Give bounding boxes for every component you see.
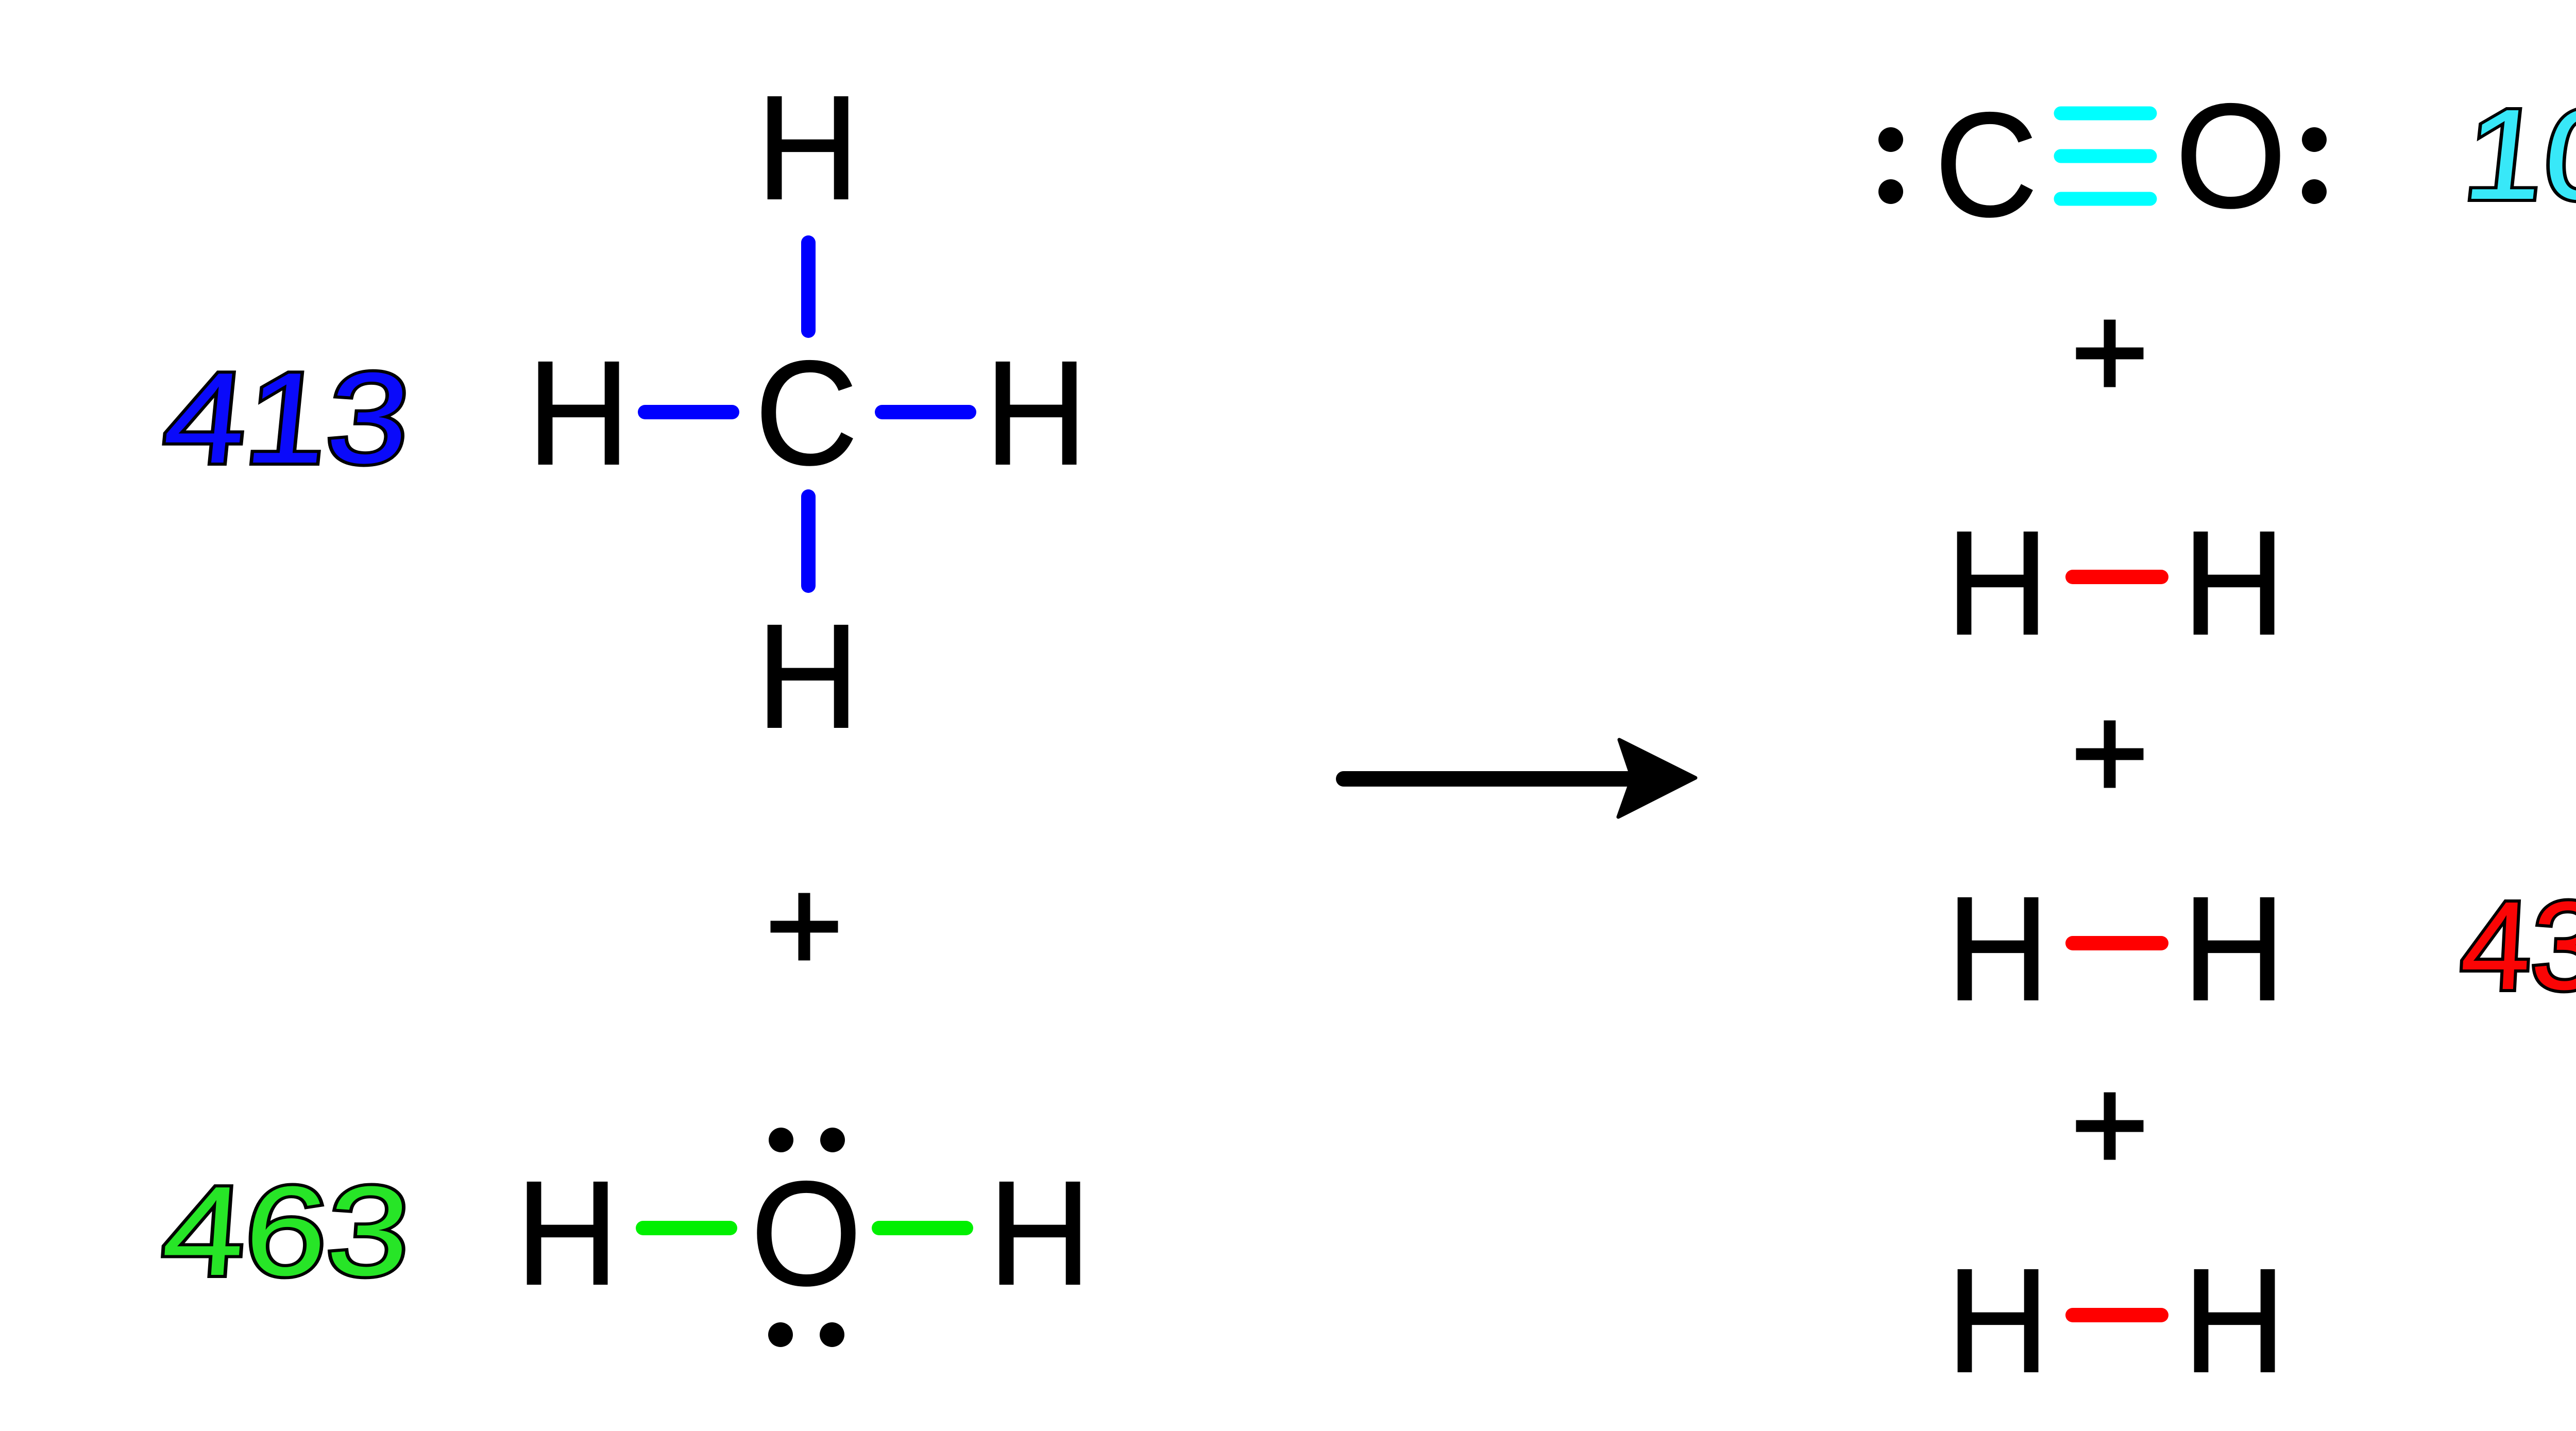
label 463 (O-H bond energy, green) — [158, 1160, 415, 1302]
svg-text:413: 413 — [158, 346, 416, 490]
atom O (water center) — [751, 1150, 862, 1316]
bond H-H #3 (red) — [2073, 1308, 2161, 1322]
svg-text:C: C — [755, 330, 858, 496]
atom H (H2 #3 right) — [2183, 1237, 2286, 1403]
svg-text:H: H — [2182, 865, 2285, 1031]
plus sign (left, between CH4 and H2O) — [771, 893, 838, 961]
atom H (methane left) — [527, 330, 630, 496]
atom H (water left) — [516, 1150, 619, 1316]
label 436 (H-H bond energy, red) — [2458, 875, 2576, 1016]
plus sign (right column, first) — [2076, 320, 2144, 387]
bond H-H #1 (red) — [2073, 570, 2161, 584]
svg-text:H: H — [1946, 1237, 2049, 1403]
svg-text:H: H — [988, 1150, 1091, 1316]
svg-text:H: H — [1946, 500, 2049, 666]
svg-text:O: O — [751, 1150, 862, 1316]
lone pair dot (O bottom-left) — [768, 1322, 793, 1347]
lone pair dot (O top-right) — [820, 1128, 845, 1152]
atom H (H2 #1 right) — [2182, 500, 2285, 666]
atom O (carbon monoxide) — [2175, 73, 2286, 238]
bond O-H right (green) — [879, 1221, 966, 1235]
atom H (methane right) — [985, 330, 1088, 496]
triple bond bar bottom (cyan) — [2061, 192, 2150, 206]
bond H-O left (green) — [643, 1221, 730, 1235]
svg-text:H: H — [527, 330, 630, 496]
atom C (methane center) — [755, 330, 858, 496]
atom H (methane top) — [756, 64, 859, 230]
svg-text:H: H — [2182, 500, 2285, 666]
svg-text:H: H — [756, 64, 859, 230]
bond C-H bottom (blue) — [801, 497, 816, 586]
lone pair dot (O right top) — [2302, 127, 2327, 152]
triple bond bar top (cyan) — [2061, 107, 2150, 121]
svg-text:H: H — [985, 330, 1088, 496]
reaction arrow shaft — [1344, 771, 1638, 787]
atom H (methane bottom) — [756, 593, 859, 759]
svg-text:H: H — [2183, 1237, 2286, 1403]
label 413 (C-H bond energy, blue) — [158, 346, 416, 490]
triple bond bar middle (cyan) — [2061, 149, 2150, 163]
label 1072 (C-O triple bond energy, cyan) — [2458, 82, 2576, 226]
svg-text:H: H — [756, 593, 859, 759]
atom H (H2 #1 left) — [1946, 500, 2049, 666]
lone pair dot (C left bottom) — [1878, 179, 1903, 204]
bond C-H top (blue) — [801, 243, 816, 331]
svg-text:436: 436 — [2458, 875, 2576, 1016]
atom H (H2 #2 right) — [2182, 865, 2285, 1031]
lone pair dot (O right bottom) — [2302, 179, 2327, 204]
bond H-C left (blue) — [645, 405, 732, 419]
svg-text:1072: 1072 — [2458, 82, 2576, 226]
plus sign (right column, third) — [2076, 1093, 2144, 1160]
bond C-H right (blue) — [882, 405, 969, 419]
reaction arrow head — [1618, 740, 1696, 817]
svg-text:H: H — [1946, 865, 2049, 1031]
lone pair dot (C left top) — [1878, 127, 1903, 152]
plus sign (right column, second) — [2076, 721, 2144, 788]
lone pair dot (O bottom-right) — [820, 1322, 844, 1347]
atom H (water right) — [988, 1150, 1091, 1316]
atom C (carbon monoxide) — [1935, 81, 2038, 247]
svg-text:O: O — [2175, 73, 2286, 238]
svg-text:463: 463 — [158, 1160, 415, 1302]
svg-text:C: C — [1935, 81, 2038, 247]
atom H (H2 #2 left) — [1946, 865, 2049, 1031]
svg-text:H: H — [516, 1150, 619, 1316]
bond H-H #2 (red) — [2073, 936, 2161, 950]
lone pair dot (O top-left) — [769, 1128, 793, 1152]
atom H (H2 #3 left) — [1946, 1237, 2049, 1403]
